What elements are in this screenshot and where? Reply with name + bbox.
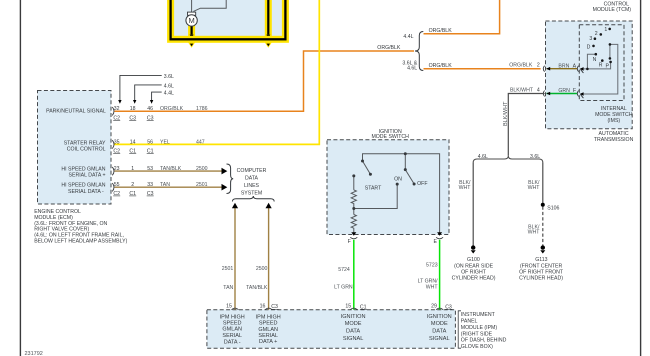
svg-text:MODULE (TCM): MODULE (TCM): [593, 7, 632, 13]
svg-text:4.4L: 4.4L: [403, 34, 413, 40]
svg-text:18: 18: [130, 106, 136, 112]
svg-text:SPEED: SPEED: [259, 321, 278, 327]
svg-text:LT GRN/: LT GRN/: [418, 278, 439, 284]
svg-text:STARTER RELAY: STARTER RELAY: [64, 140, 106, 146]
svg-text:35: 35: [114, 139, 120, 145]
svg-text:TAN: TAN: [223, 285, 233, 291]
svg-text:3.6L: 3.6L: [530, 154, 540, 160]
svg-text:5724: 5724: [338, 267, 350, 273]
svg-text:HI SPEED GMLAN: HI SPEED GMLAN: [61, 183, 105, 189]
svg-text:14: 14: [130, 139, 136, 145]
svg-text:P: P: [606, 63, 610, 69]
svg-text:GMLAN: GMLAN: [258, 327, 278, 333]
svg-text:29: 29: [431, 304, 437, 310]
svg-text:G100: G100: [467, 257, 480, 263]
svg-text:ORG/BLK: ORG/BLK: [429, 63, 453, 69]
svg-text:BELOW LEFT HEADLAMP ASSEMBLY): BELOW LEFT HEADLAMP ASSEMBLY): [34, 239, 127, 245]
svg-text:SIGNAL: SIGNAL: [343, 336, 364, 342]
svg-text:SYSTEM: SYSTEM: [241, 191, 262, 197]
svg-text:LINES: LINES: [244, 183, 260, 189]
svg-text:WHT: WHT: [426, 285, 439, 291]
svg-text:2: 2: [537, 63, 540, 69]
svg-text:R: R: [599, 62, 603, 68]
svg-text:WHT: WHT: [528, 185, 541, 191]
svg-text:55: 55: [114, 182, 120, 188]
svg-text:MODE: MODE: [431, 321, 448, 327]
svg-text:15: 15: [345, 304, 351, 310]
svg-text:START: START: [365, 186, 382, 192]
svg-text:D: D: [587, 44, 591, 50]
svg-text:F: F: [573, 88, 576, 94]
svg-text:MODULE (IPM): MODULE (IPM): [461, 325, 498, 331]
svg-text:CYLINDER HEAD): CYLINDER HEAD): [452, 275, 496, 281]
svg-text:53: 53: [147, 166, 153, 172]
svg-text:33: 33: [147, 182, 153, 188]
svg-text:46: 46: [147, 106, 153, 112]
svg-text:F: F: [348, 239, 351, 245]
svg-text:2501: 2501: [196, 182, 208, 188]
svg-text:2: 2: [131, 182, 134, 188]
svg-text:23: 23: [114, 166, 120, 172]
svg-text:OF DASH, BEHIND: OF DASH, BEHIND: [461, 338, 507, 344]
svg-text:YEL: YEL: [160, 139, 170, 145]
svg-text:TAN: TAN: [160, 182, 170, 188]
svg-text:DATA +: DATA +: [259, 339, 277, 345]
svg-text:DATA: DATA: [245, 176, 259, 182]
svg-text:SERIAL DATA +: SERIAL DATA +: [69, 173, 106, 179]
svg-text:MODE: MODE: [345, 321, 362, 327]
svg-text:SERIAL: SERIAL: [222, 333, 242, 339]
svg-text:ORG/BLK: ORG/BLK: [429, 28, 453, 34]
svg-text:2500: 2500: [256, 266, 268, 272]
svg-text:2501: 2501: [222, 266, 234, 272]
svg-text:4.6L: 4.6L: [164, 83, 174, 89]
svg-text:CYLINDER HEAD): CYLINDER HEAD): [519, 275, 563, 281]
svg-text:1: 1: [604, 27, 607, 33]
svg-text:2: 2: [595, 31, 598, 37]
svg-text:TAN/BLK: TAN/BLK: [246, 285, 268, 291]
svg-text:BRN: BRN: [558, 63, 569, 69]
svg-text:(IMS): (IMS): [607, 118, 620, 124]
svg-text:32: 32: [114, 106, 120, 112]
svg-text:4.6L: 4.6L: [407, 66, 417, 72]
svg-text:G113: G113: [535, 257, 547, 263]
svg-text:E: E: [434, 239, 438, 245]
svg-text:ORG/BLK: ORG/BLK: [160, 106, 184, 112]
svg-text:1: 1: [131, 166, 134, 172]
svg-text:IGNITION: IGNITION: [341, 314, 366, 320]
svg-text:1786: 1786: [196, 106, 208, 112]
svg-text:4.4L: 4.4L: [164, 90, 174, 96]
svg-text:SERIAL: SERIAL: [258, 333, 278, 339]
svg-text:GLOVE BOX): GLOVE BOX): [461, 344, 493, 350]
svg-text:BLK/WHT: BLK/WHT: [510, 88, 534, 94]
svg-text:LT GRN: LT GRN: [334, 285, 353, 291]
svg-text:MODE SWITCH: MODE SWITCH: [371, 134, 409, 140]
svg-text:231792: 231792: [25, 351, 43, 356]
svg-text:BLK/WHT: BLK/WHT: [503, 101, 509, 126]
svg-text:M: M: [188, 16, 194, 25]
svg-text:GRN: GRN: [558, 88, 570, 94]
svg-text:A: A: [573, 63, 577, 69]
svg-text:HI SPEED GMLAN: HI SPEED GMLAN: [61, 167, 105, 173]
svg-text:COIL CONTROL: COIL CONTROL: [67, 147, 106, 153]
svg-text:3.6L: 3.6L: [164, 74, 174, 80]
svg-text:S106: S106: [547, 205, 559, 211]
svg-text:DATA: DATA: [346, 329, 360, 335]
svg-text:4: 4: [537, 88, 540, 94]
svg-text:447: 447: [196, 139, 205, 145]
svg-text:ORG/BLK: ORG/BLK: [509, 63, 533, 69]
svg-text:ON: ON: [394, 176, 402, 182]
svg-text:N: N: [593, 57, 597, 63]
svg-text:ORG/BLK: ORG/BLK: [377, 45, 401, 51]
svg-text:15: 15: [226, 303, 232, 309]
svg-text:TRANSMISSION: TRANSMISSION: [594, 137, 634, 143]
svg-text:16: 16: [260, 303, 266, 309]
svg-text:56: 56: [147, 139, 153, 145]
svg-text:3: 3: [589, 36, 592, 42]
svg-text:WHT: WHT: [459, 185, 472, 191]
svg-text:SERIAL DATA -: SERIAL DATA -: [68, 189, 104, 195]
svg-text:SIGNAL: SIGNAL: [429, 336, 450, 342]
svg-text:TAN/BLK: TAN/BLK: [160, 166, 182, 172]
svg-text:5723: 5723: [426, 262, 438, 268]
svg-text:PARK/NEUTRAL SIGNAL: PARK/NEUTRAL SIGNAL: [46, 108, 106, 114]
svg-text:OFF: OFF: [417, 181, 427, 187]
svg-text:IGNITION: IGNITION: [427, 314, 452, 320]
svg-text:COMPUTER: COMPUTER: [237, 168, 267, 174]
svg-text:DATA -: DATA -: [224, 339, 241, 345]
svg-text:PANEL: PANEL: [461, 319, 478, 325]
svg-text:2500: 2500: [196, 166, 208, 172]
svg-text:IPM HIGH: IPM HIGH: [256, 315, 281, 321]
svg-text:GMLAN: GMLAN: [222, 326, 242, 332]
svg-text:4.6L: 4.6L: [478, 154, 488, 160]
svg-text:(RIGHT SIDE: (RIGHT SIDE: [461, 331, 493, 337]
svg-text:INSTRUMENT: INSTRUMENT: [461, 312, 496, 318]
svg-text:DATA: DATA: [432, 329, 446, 335]
svg-text:WHT: WHT: [528, 230, 541, 236]
